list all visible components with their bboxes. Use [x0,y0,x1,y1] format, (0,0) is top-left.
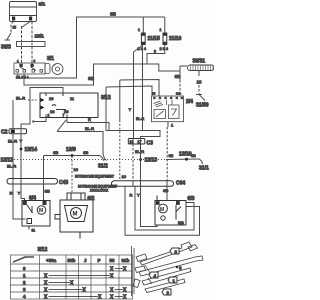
fuse 11/15 [141,33,145,45]
switch table 3/12 [11,255,133,299]
svg-text:J: J [84,258,87,263]
svg-text:X: X [70,280,74,286]
wire from 6/1 left terminal to 30/3 [5,21,14,40]
connector C2 [9,129,27,134]
wire SB run to 13/9 [44,156,105,162]
svg-text:X: X [123,287,127,293]
svg-text:5: 5 [34,59,36,63]
wire relay feed upper [106,86,152,96]
wire C64 to 6/3 loop B [135,186,194,230]
wire 13/9 branch down [43,156,45,182]
junction 13/13 [139,158,142,161]
svg-text:C64: C64 [176,181,185,187]
wire C43 pin1 to 6/4 left [13,184,26,219]
svg-text:6: 6 [179,266,182,271]
svg-text:31b: 31b [178,221,184,225]
wire 13/9 down to 6/2 [71,156,73,193]
svg-text:BL-R: BL-R [7,164,16,169]
svg-text:BL-R: BL-R [16,96,25,101]
svg-text:3: 3 [23,287,26,292]
table row numbers [23,266,26,299]
svg-text:19: 19 [49,96,54,101]
wire relay feed lower [120,80,159,182]
washer pump 6/2 [55,193,93,239]
svg-text:SB: SB [163,188,169,193]
svg-text:SB: SB [191,154,196,158]
interior light dotted wire 13/13 [2,159,166,161]
svg-text:X: X [44,280,48,286]
svg-text:31: 31 [32,229,36,233]
svg-text:13/14: 13/14 [25,147,38,153]
svg-text:17: 17 [138,140,142,144]
svg-text:SB: SB [175,74,181,79]
svg-text:1: 1 [138,28,140,32]
wire SB: 3/1 to top run to fuses [18,17,165,78]
svg-text:1: 1 [160,28,162,32]
wire C43 pin3 to 6/4 pin [43,184,45,201]
svg-text:1: 1 [23,273,26,278]
wire from 11/16 bottom [147,45,165,65]
callout tag 1 [168,277,177,284]
junction 13/14 [20,148,23,151]
ignition switch 6/1 [10,2,37,22]
wire C64 to 6/3 loop A [125,186,200,235]
wire C43 pin2 to 6/4 top [21,184,25,201]
wire C3 pin18 down [132,144,134,181]
svg-text:8: 8 [154,50,156,54]
table connection lines [49,268,124,296]
connector drum of 3/1 [45,63,63,74]
svg-text:R: R [130,193,133,198]
svg-text:30/3: 30/3 [1,45,11,51]
svg-text:M: M [39,208,43,214]
svg-text:C2: C2 [1,130,8,136]
svg-text:39: 39 [64,109,69,114]
svg-text:4: 4 [23,294,26,299]
svg-text:1: 1 [171,123,174,128]
svg-text:2 3 4: 2 3 4 [160,47,168,51]
connector 31/50 [196,95,205,101]
svg-text:31/50: 31/50 [196,103,209,109]
wire BL-R dashed into 3/12 [28,99,37,101]
svg-text:X: X [83,287,87,293]
wire relay to 6/3 top [166,186,168,200]
svg-text:18: 18 [130,140,134,144]
svg-text:C43: C43 [59,180,68,186]
svg-text:15/1: 15/1 [35,34,45,40]
wire C2 pin1 down [12,134,14,181]
svg-text:16: 16 [50,109,55,114]
wire fuse 11/15 drop [142,17,144,33]
svg-text:53b: 53b [68,258,76,263]
wire C3 pin17 down [140,144,142,181]
wire 11/15 pin3 down to junction [142,45,144,131]
wire diagonal to BL-R run [57,120,66,132]
svg-text:6/3: 6/3 [188,196,195,202]
svg-text:31b: 31b [122,258,130,263]
svg-text:X: X [110,287,114,293]
wire fuse 11/16 drop [164,17,166,33]
wire SB to 13/10 [166,159,203,164]
svg-text:Y: Y [137,193,140,198]
wire 15/1 to 3/1 pin b [31,47,33,64]
wire 15/1 to 3/1 pin a [21,47,23,64]
svg-text:2/4: 2/4 [186,99,193,105]
svg-text:SB: SB [83,150,89,155]
table X marks [44,266,127,300]
svg-text:M: M [160,207,164,213]
svg-text:R: R [88,117,91,122]
tailgate wiper motor 6/3 [155,196,186,228]
wire to fuse strip left [21,26,23,41]
svg-text:2: 2 [48,114,50,118]
svg-text:6/2: 6/2 [88,196,95,202]
wire to C3 pin 17 jog [106,87,160,139]
svg-text:13/13: 13/13 [145,158,158,164]
svg-text:+53a: +53a [46,258,57,263]
connector C64 [112,181,174,187]
svg-text:X: X [110,273,114,279]
svg-text:3/12: 3/12 [38,247,48,253]
wire R run from 3/12 to C3 [67,118,109,131]
svg-text:M: M [73,212,78,218]
junction 13/10 [185,158,188,161]
svg-text:XXXX-XXXX: XXXX-XXXX [90,189,109,193]
svg-text:Y: Y [18,191,21,196]
wire 30/31 feed [180,66,187,96]
svg-text:13/9: 13/9 [66,147,76,153]
svg-text:SB: SB [169,154,174,158]
wire 6/1 right terminal diagonal [22,22,31,28]
table headers [46,258,130,263]
svg-text:C3: C3 [147,141,154,147]
svg-text:53: 53 [110,258,116,263]
wire relay to 6/3 SB [166,127,168,181]
callout tag 3 [170,248,179,255]
svg-text:3/1: 3/1 [47,56,54,62]
svg-text:0: 0 [23,266,26,271]
svg-text:Y: Y [129,107,132,112]
fuse strip 15/1 [17,42,46,47]
wire C2 pin1 riser [12,100,14,129]
relay 2/4 [152,96,184,122]
wire BL-R run to 31/2 [57,132,107,161]
svg-text:6/1: 6/1 [39,2,46,8]
svg-text:6/4: 6/4 [29,196,36,202]
svg-text:NOTE:SOME EQUIPMENT: NOTE:SOME EQUIPMENT [75,175,114,179]
svg-text:BL-R: BL-R [135,149,144,154]
svg-text:SB: SB [45,189,51,194]
wire from 11/15 bottom via diagonal [134,45,144,139]
stalk illustration [132,242,204,296]
wire bus to 30/31 [24,64,180,85]
svg-text:13/10: 13/10 [179,152,192,158]
wire 3/12 pin2 stub [33,118,46,124]
light switch 3/1 [14,63,45,74]
connector C43 [7,179,58,185]
svg-text:11: 11 [70,96,75,101]
wire 30/31 down to 31/50 [198,71,200,95]
svg-text:SB: SB [110,12,116,17]
svg-text:11/15: 11/15 [148,36,160,42]
callout tag 6 [176,266,182,271]
callout tag 2 [162,289,171,296]
svg-text:BL-R: BL-R [136,117,145,121]
svg-text:X: X [44,287,48,293]
svg-text:R: R [10,191,13,196]
svg-text:31/1: 31/1 [199,166,209,172]
svg-text:30/31: 30/31 [193,59,206,65]
connector C3 [128,139,145,145]
svg-text:X: X [123,266,127,272]
svg-text:7: 7 [63,114,65,118]
wiper switch 3/12 [40,93,98,118]
svg-text:31/2: 31/2 [98,164,108,170]
headlamp wiper motor 6/4 [22,201,50,230]
fuse 11/16 [163,33,167,45]
callout tag 4 [149,272,158,279]
svg-text:2: 2 [23,280,26,285]
svg-text:15: 15 [13,26,17,30]
junction 13/9 [71,154,74,157]
splice 30/31 [188,65,215,71]
svg-text:SB: SB [53,150,59,155]
svg-text:10: 10 [74,167,79,172]
svg-text:10: 10 [122,174,127,179]
svg-text:31b: 31b [176,92,181,96]
svg-text:BL-R: BL-R [85,126,94,131]
wire C2 pin2 riser [21,88,63,130]
svg-text:10: 10 [197,80,203,85]
svg-text:X: X [110,266,114,272]
svg-text:15: 15 [152,92,156,96]
wire C64 to 6/3 bottom [141,186,158,226]
svg-text:X: X [44,273,48,279]
svg-text:11/16: 11/16 [169,36,181,42]
svg-text:SB: SB [88,76,94,81]
relay bottom pin 1 [168,122,174,128]
wire to fuse strip right [31,22,33,42]
svg-text:1: 1 [17,59,19,63]
wire C2 pin2 down [20,134,22,181]
svg-text:P: P [98,258,101,263]
